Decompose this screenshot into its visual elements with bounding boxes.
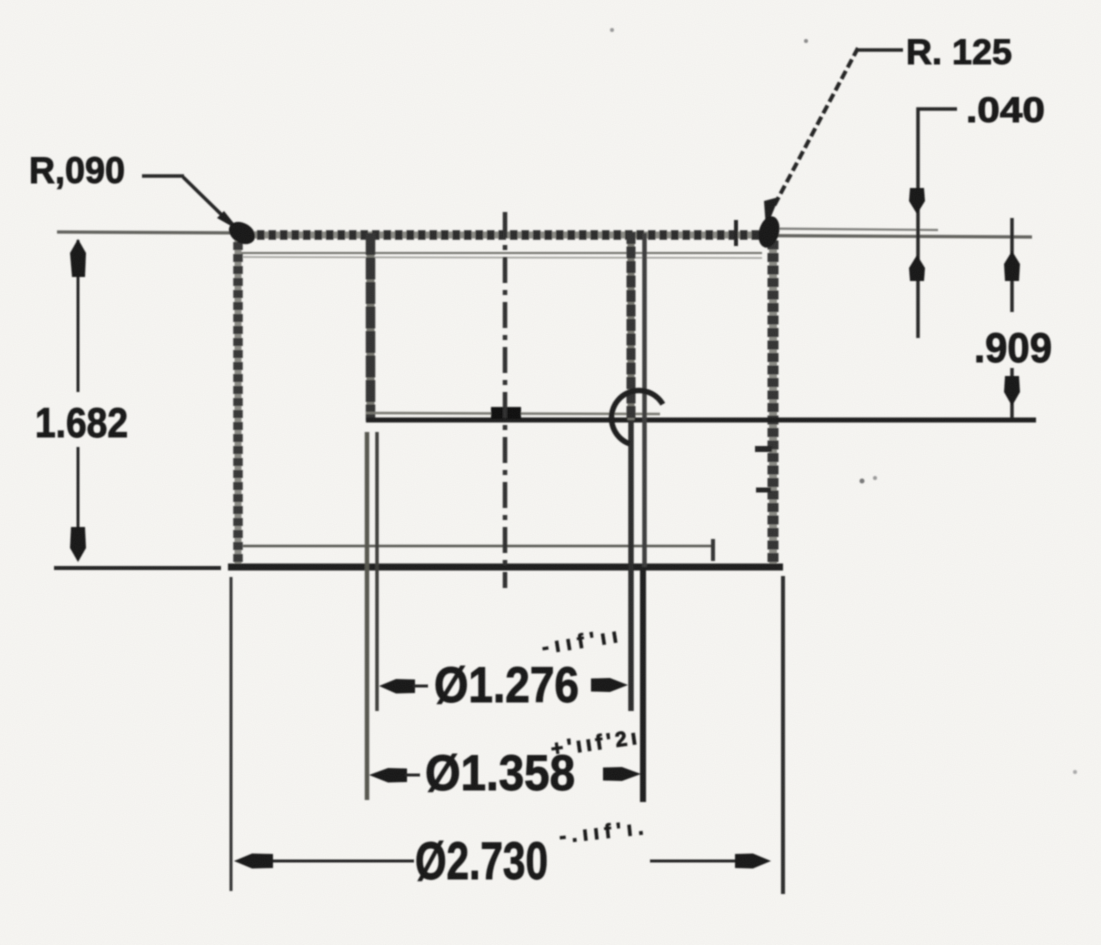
top surface line (full width) [57, 232, 1032, 237]
extension line left for 2.730 [230, 577, 233, 891]
bottom inner thin line [243, 545, 713, 548]
1.358 arrow right [603, 767, 641, 781]
left outer wall (dotted) [233, 230, 243, 566]
leader R,090 arrowhead [217, 211, 240, 231]
top-left corner blob [225, 217, 259, 248]
dimension .909 line lower [1010, 368, 1014, 418]
blob at centerline/step crossing [491, 407, 521, 419]
counterbore step line (thick) [366, 418, 1036, 423]
speck 4 [873, 476, 877, 480]
bottom extension line for 1.682 [54, 566, 221, 570]
1.276 arrow left [379, 679, 415, 694]
leader R,090 horizontal [142, 174, 184, 178]
right outer wall (dotted) [768, 228, 779, 566]
bottom edge of part (thick) [228, 564, 783, 571]
bottom tick [711, 539, 715, 561]
inner top surface thin line [241, 252, 762, 254]
1.682 arrow upper (up) [70, 239, 86, 277]
right bore wall (thick, upper dashed) [627, 232, 636, 420]
centerline (dash-dot) [503, 212, 508, 588]
1.276 stub left [413, 685, 428, 688]
tick on right wall 1 [755, 446, 772, 452]
upper-left bore wall (thick) [366, 233, 376, 421]
detail circle at step (broken on right) [611, 391, 662, 444]
leader R.125 diagonal [774, 48, 858, 206]
left bore extension line outer [365, 432, 370, 800]
upper-left bore wall underlay [367, 233, 375, 421]
top edge of part (thick dotted knurl band) [234, 230, 763, 240]
speck 5 [1073, 770, 1077, 774]
top edge band underlay [234, 232, 763, 239]
right bore wall underlay [628, 232, 635, 420]
2.730 arrow left [234, 854, 273, 869]
1.358 stub left [405, 774, 420, 777]
1.682 arrow lower (down) [70, 527, 86, 562]
counterbore step line (thin) [366, 413, 660, 414]
dimension 1.682 line lower [77, 447, 80, 530]
2.730 arrow right [735, 854, 771, 869]
speck 1 [610, 28, 614, 32]
extension line right for 2.730 [781, 576, 785, 894]
leader R.125 arrowhead [764, 197, 779, 229]
dimension line 2.730 right [650, 860, 758, 863]
1.358 arrow left [369, 768, 407, 783]
.040 arrow upper (down) [909, 188, 925, 214]
leader R,090 diagonal [183, 177, 230, 223]
right bore companion thin line [642, 233, 647, 567]
right outer wall underlay [769, 228, 777, 566]
top-right corner blob [755, 214, 783, 250]
left bore extension line inner [375, 432, 379, 711]
tick on top band [734, 220, 738, 246]
scan noise overlay [0, 0, 1, 1]
top surface line (right doubled thin) [763, 229, 938, 231]
dimension line 2.730 left [250, 860, 414, 863]
right bore extension line (dark, below part) [640, 567, 646, 802]
1.276 arrow right [591, 678, 628, 692]
tick on right wall 2 [756, 488, 771, 493]
.909 arrow upper (up) [1004, 251, 1020, 281]
speck 2 [804, 39, 808, 43]
speck 3 [860, 479, 865, 484]
inner top surface thin line 2 [243, 257, 762, 258]
dimension 1.682 line upper [77, 240, 80, 392]
right bore wall lower [628, 420, 634, 711]
.040 arrow lower (up) [909, 255, 925, 281]
leader R.125 horizontal [858, 48, 903, 52]
left outer wall underlay [235, 230, 242, 566]
dimension .040 bracket [918, 109, 957, 338]
dimension .909 line upper [1010, 218, 1014, 312]
.909 arrow lower (down) [1004, 376, 1020, 406]
